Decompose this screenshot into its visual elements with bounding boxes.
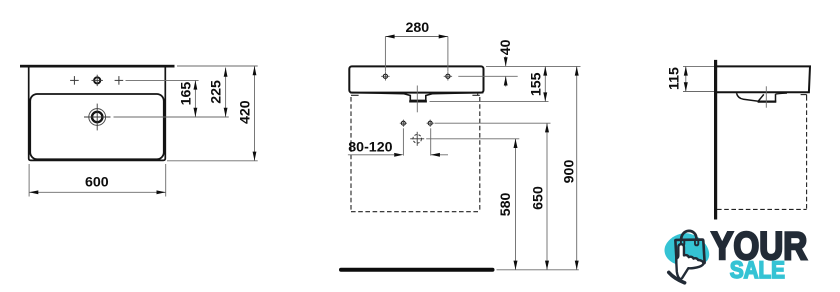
top view: left tap hole cross: [70, 76, 79, 85]
top view: right tap hole cross: [115, 76, 124, 85]
front view: waste outlet: [410, 132, 424, 146]
front view: fixing hole extension line: [435, 122, 551, 124]
logo: bag handle: [681, 231, 696, 241]
dimension 165 (tap to drain): [179, 80, 198, 117]
svg-text:40: 40: [498, 39, 514, 55]
dimension 280 (tap hole spacing): [385, 20, 448, 72]
front view: right tap hole: [444, 72, 452, 80]
svg-text:580: 580: [498, 192, 514, 216]
logo: teal blob: [665, 233, 710, 266]
svg-text:115: 115: [666, 67, 682, 90]
svg-text:165: 165: [179, 82, 195, 106]
top view: drain hole: [84, 104, 111, 131]
side view: drain centreline: [765, 86, 767, 107]
svg-text:900: 900: [561, 160, 577, 184]
svg-text:650: 650: [530, 186, 546, 210]
dimension 600 (basin width): [29, 164, 166, 197]
front view: left fixing hole: [400, 120, 407, 127]
front view: body outline: [349, 66, 483, 92]
side view: wall line: [714, 60, 717, 220]
top view: inner basin rounded rect: [30, 94, 164, 159]
svg-text:225: 225: [209, 80, 225, 104]
logo: pointing hand: [676, 244, 703, 279]
dimension 155 (edge to trap): [529, 66, 548, 101]
front view: tailpiece bottom extension line: [430, 101, 549, 103]
svg-text:80-120: 80-120: [348, 139, 392, 155]
front view: right fixing hole: [427, 120, 434, 127]
logo: shopping bag: [675, 240, 704, 267]
dimension 900 (floor to rim): [561, 66, 578, 269]
svg-text:SALE: SALE: [730, 257, 785, 284]
logo: handle end right: [695, 240, 698, 245]
front view: top edge extension line: [486, 65, 581, 67]
top view: bottom-right extension line: [167, 160, 258, 162]
front view: waste outlet extension line: [426, 138, 519, 140]
front view: left tap hole: [381, 72, 389, 80]
top view: tap hole extension line: [126, 79, 199, 81]
dimension 650 (floor to fixing): [530, 123, 549, 270]
side view: dashed furniture outline: [717, 95, 807, 210]
svg-text:600: 600: [85, 175, 109, 191]
dimension 115 (rim thickness): [666, 66, 688, 91]
svg-text:280: 280: [405, 20, 429, 36]
dimension 580 (floor to outlet): [498, 139, 518, 270]
side view: body profile: [717, 66, 810, 92]
front view: dashed furniture outline: [351, 93, 480, 212]
front view: bottom edge slope and drain tailpiece: [350, 93, 483, 102]
logo: YOUR text: [711, 223, 807, 267]
dimension 80-120 (outlet range): [348, 128, 448, 157]
dimension 225 (edge to drain): [209, 68, 228, 118]
svg-text:155: 155: [529, 72, 545, 96]
logo: handle end left: [681, 241, 684, 246]
side view: bowl underside profile: [737, 93, 788, 102]
logo: sleeve cuff stroke: [669, 272, 685, 282]
front view: floor line: [341, 268, 493, 272]
front view: floor extension line: [497, 269, 579, 271]
logo: SALE text: [730, 257, 785, 284]
top view: wall edge bar: [20, 65, 175, 68]
svg-text:420: 420: [237, 100, 253, 124]
dimension 420 (basin depth): [237, 66, 256, 161]
front view: vertical centreline: [416, 86, 418, 113]
top view: top-right extension line: [177, 65, 258, 67]
top view: drain extension line: [114, 116, 229, 118]
top view: centre tap hole: [92, 75, 103, 86]
top view: basin outer body outline: [29, 68, 166, 161]
dimension 40 (edge to tap hole): [498, 39, 514, 86]
side view: 115 extension lines: [683, 66, 714, 91]
front view: tap hole level extension line: [458, 75, 517, 77]
